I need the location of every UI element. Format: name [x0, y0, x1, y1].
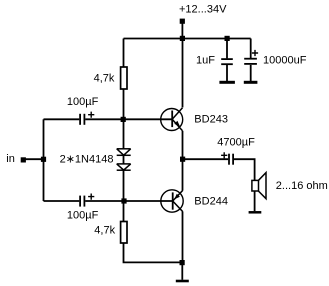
svg-text:4,7k: 4,7k	[94, 225, 115, 237]
svg-text:10000uF: 10000uF	[263, 55, 307, 67]
svg-text:100µF: 100µF	[67, 209, 99, 221]
svg-text:BD244: BD244	[194, 195, 228, 207]
svg-text:2...16 ohm: 2...16 ohm	[276, 180, 328, 192]
svg-text:1uF: 1uF	[196, 54, 215, 66]
svg-text:4,7k: 4,7k	[94, 72, 115, 84]
svg-text:in: in	[6, 153, 15, 165]
svg-text:BD243: BD243	[194, 113, 228, 125]
svg-text:4700µF: 4700µF	[217, 137, 255, 149]
svg-text:2∗1N4148: 2∗1N4148	[60, 154, 114, 166]
svg-text:100µF: 100µF	[67, 96, 99, 108]
svg-text:+12...34V: +12...34V	[179, 4, 227, 16]
